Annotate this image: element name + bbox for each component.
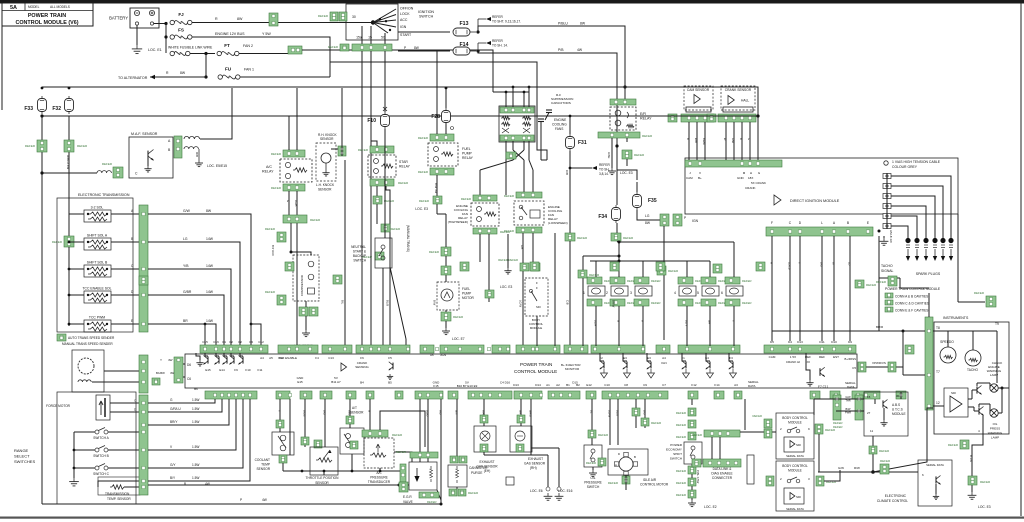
fusible link xyxy=(170,51,174,55)
pcm right wires xyxy=(806,353,810,380)
svg-text:TRANSMISSION: TRANSMISSION xyxy=(105,492,130,496)
svg-text:RELAY: RELAY xyxy=(462,156,474,160)
f31 conn bottom xyxy=(565,233,575,241)
knock wire xyxy=(341,143,343,146)
transmission connector bar xyxy=(139,205,148,332)
svg-text:V/B: V/B xyxy=(439,410,443,415)
iac box xyxy=(608,449,648,475)
maf A wire xyxy=(200,88,232,139)
pcm bottom bar pins xyxy=(214,393,217,396)
svg-text:F15: F15 xyxy=(433,384,439,388)
fuse FT xyxy=(217,51,221,55)
maf out coil B xyxy=(184,147,198,149)
svg-text:B: B xyxy=(131,237,133,241)
svg-text:LOC. E2: LOC. E2 xyxy=(704,505,717,509)
contact node 15a xyxy=(379,18,381,20)
fan cross wires xyxy=(513,150,524,160)
start to f14 wire xyxy=(398,50,450,52)
pcm bottom connector bar seg19 xyxy=(830,391,840,399)
ecf high down2 xyxy=(488,234,490,302)
svg-text:POWER: POWER xyxy=(670,443,682,447)
svg-text:B: B xyxy=(184,482,186,486)
pcm mid gnd x729 xyxy=(730,369,737,378)
svg-text:SWITCH: SWITCH xyxy=(353,259,366,263)
tacho riser xyxy=(972,331,974,350)
title block divider vertical xyxy=(24,3,26,11)
svg-text:REFER: REFER xyxy=(676,469,687,473)
injector 1 conn bottom xyxy=(587,299,602,306)
svg-text:F14: F14 xyxy=(714,383,720,387)
f35 feed xyxy=(617,170,637,180)
svg-text:RANGE: RANGE xyxy=(14,448,29,453)
pcm right transistor xyxy=(819,368,821,376)
at bottom xyxy=(351,454,353,471)
svg-text:8W: 8W xyxy=(580,22,586,26)
FT FU junction wire xyxy=(205,54,207,78)
svg-text:E3: E3 xyxy=(623,356,627,360)
coolant temp circles xyxy=(280,435,286,441)
svg-text:START &: START & xyxy=(353,250,367,254)
connector on FJ wire xyxy=(269,13,278,26)
svg-text:REFER: REFER xyxy=(396,450,407,454)
svg-text:SELECT: SELECT xyxy=(14,454,30,459)
mid connector 3 xyxy=(460,262,469,271)
brr wire xyxy=(772,330,925,332)
svg-text:SENSOR: SENSOR xyxy=(320,137,334,141)
crank sensor wires xyxy=(725,122,727,131)
svg-text:CONTROL MOTOR: CONTROL MOTOR xyxy=(640,483,669,487)
svg-text:C2: C2 xyxy=(238,340,242,344)
svg-text:SDI: SDI xyxy=(536,305,541,309)
svg-text:B+: B+ xyxy=(698,176,702,180)
ac compressor conn left xyxy=(277,232,286,242)
svg-text:OIL: OIL xyxy=(993,422,998,426)
pes down wire xyxy=(691,464,693,500)
svg-text:TO SH.: TO SH. xyxy=(599,168,610,172)
f31 refer arrow xyxy=(592,166,597,170)
knock vertical down xyxy=(344,160,346,345)
svg-text:B: B xyxy=(634,455,636,459)
FU junction node xyxy=(204,75,207,78)
ac compressor conn left2 xyxy=(277,295,286,305)
pcm drop x521 xyxy=(520,399,522,426)
bcm mid switch xyxy=(531,291,537,301)
svg-text:REFER: REFER xyxy=(25,144,36,148)
neutral sw down xyxy=(382,268,384,346)
ht cable 4 xyxy=(891,206,926,238)
egs grounds xyxy=(547,493,549,496)
svg-text:LOC. E3: LOC. E3 xyxy=(500,285,512,289)
svg-text:A/C ENABLE: A/C ENABLE xyxy=(279,356,297,360)
dim bar right node xyxy=(878,230,881,233)
injector 3 wire down xyxy=(642,306,644,346)
fuel relay up2 xyxy=(445,112,447,134)
ht cable 5 xyxy=(891,216,917,238)
pcm transistor Q4 wire xyxy=(231,353,234,356)
ht vertical link xyxy=(886,173,888,229)
to alternator wire xyxy=(150,76,206,78)
svg-text:REFER: REFER xyxy=(880,459,891,463)
pcm bottom connector bar seg9 xyxy=(448,391,458,399)
svg-text:IDLE AIR: IDLE AIR xyxy=(643,478,657,482)
svg-text:PRESSURE: PRESSURE xyxy=(584,481,602,485)
injector 4 wire up xyxy=(686,261,688,277)
ecf high relay box xyxy=(471,203,499,226)
svg-text:LG: LG xyxy=(645,214,650,218)
at sensor box xyxy=(340,428,364,454)
svg-text:SDI: SDI xyxy=(951,391,956,395)
f32 top tap xyxy=(68,87,71,90)
pcm top connector bar seg9 xyxy=(564,345,588,353)
svg-text:2: 2 xyxy=(606,291,608,295)
svg-text:REFER: REFER xyxy=(608,481,619,485)
svg-text:REFER: REFER xyxy=(974,291,985,295)
svg-text:1 5X: 1 5X xyxy=(790,355,796,359)
svg-text:SWITCH: SWITCH xyxy=(419,15,434,19)
f10 down xyxy=(384,129,386,238)
fan feed verticals xyxy=(505,92,507,107)
maf connector right xyxy=(174,136,182,158)
speedo needle xyxy=(944,355,953,358)
svg-text:C15: C15 xyxy=(202,340,208,344)
dim wire down x834 xyxy=(833,236,835,341)
svg-text:B/O: B/O xyxy=(323,410,327,416)
fan cap wire down xyxy=(540,128,542,160)
sw 15 down xyxy=(370,26,372,44)
svg-text:F9: F9 xyxy=(234,368,238,372)
svg-text:SENSING: SENSING xyxy=(355,365,369,369)
dl up wire xyxy=(744,399,746,430)
pcm transistor Q1 xyxy=(207,356,209,363)
bcm mid conns xyxy=(520,263,529,271)
injector 6 box xyxy=(726,286,743,296)
svg-text:B/LBW: B/LBW xyxy=(156,371,165,375)
svg-text:E: E xyxy=(131,319,133,323)
ignition contact start xyxy=(373,23,388,34)
injector 3 wire up xyxy=(642,261,644,277)
tps innards xyxy=(316,458,332,462)
fan out drops xyxy=(505,160,507,195)
svg-text:REFER: REFER xyxy=(742,279,751,283)
svg-text:A5: A5 xyxy=(269,356,273,360)
svg-text:B/W 4W: B/W 4W xyxy=(434,183,438,194)
svg-text:L/B: L/B xyxy=(520,245,524,249)
ecc inner xyxy=(935,484,937,494)
svg-text:B1: B1 xyxy=(566,383,570,387)
solenoid TCC ENABLE SOL pins xyxy=(87,294,89,296)
mid connector 7 xyxy=(713,264,722,273)
svg-text:B5: B5 xyxy=(388,381,392,385)
pes box xyxy=(684,442,702,464)
svg-text:DIRECT IGNITION MODULE: DIRECT IGNITION MODULE xyxy=(790,199,840,203)
FS node xyxy=(164,35,167,38)
ac press innards xyxy=(370,453,386,457)
ht cable 1 xyxy=(891,176,951,238)
speed sender refer2 xyxy=(152,378,160,385)
coolant temp box xyxy=(272,432,294,455)
range wire BR/Y xyxy=(148,399,229,425)
pcm mid transistor x729 xyxy=(732,362,734,369)
brr node xyxy=(902,330,905,333)
egs ground circles2 xyxy=(546,487,550,491)
svg-text:P/B: P/B xyxy=(558,48,564,52)
transmission connector refer xyxy=(139,276,148,285)
pcm drop x531 xyxy=(530,399,532,455)
crank sensor connector white xyxy=(723,107,753,112)
svg-text:POWER TRAIN: POWER TRAIN xyxy=(28,13,66,19)
svg-text:R/BLU 4W: R/BLU 4W xyxy=(66,155,70,169)
svg-text:4W: 4W xyxy=(168,358,173,362)
svg-text:LOC. E3: LOC. E3 xyxy=(415,207,428,211)
pcm top connector bar seg13 xyxy=(764,345,856,353)
speed sender wire1 xyxy=(92,381,140,383)
svg-text:F4: F4 xyxy=(315,356,319,360)
ht terminal stack xyxy=(883,174,891,179)
dim wire down x772 xyxy=(771,236,773,341)
pcm top bar pins xyxy=(204,347,207,350)
fusible link out wire xyxy=(190,53,215,55)
abs node xyxy=(871,470,875,474)
svg-text:30: 30 xyxy=(352,15,356,19)
svg-text:COMPRESSOR: COMPRESSOR xyxy=(300,275,304,296)
fuel pump wire down xyxy=(437,213,446,215)
knock sensor circle xyxy=(321,153,331,163)
svg-text:14W: 14W xyxy=(206,264,214,268)
egr conn xyxy=(410,452,438,458)
svg-text:ELECTRONIC: ELECTRONIC xyxy=(885,494,907,498)
ignition contact ign xyxy=(373,23,396,28)
svg-text:REFER: REFER xyxy=(419,199,430,203)
pcm bottom connector bar seg2 xyxy=(276,391,290,399)
spark plug arrows xyxy=(949,244,953,246)
svg-text:G: G xyxy=(286,200,290,202)
svg-text:Y: Y xyxy=(278,410,282,412)
svg-text:CONNECTER: CONNECTER xyxy=(712,476,733,480)
svg-text:14W: 14W xyxy=(206,319,214,323)
pb f34 node xyxy=(615,144,618,147)
svg-text:C3: C3 xyxy=(249,340,253,344)
svg-text:EXHAUST: EXHAUST xyxy=(479,460,494,464)
svg-text:R/B: R/B xyxy=(195,152,199,157)
bcm2 conn left xyxy=(766,476,774,486)
egs rh conn xyxy=(517,415,525,423)
SWITCH A left wire xyxy=(74,431,95,433)
svg-text:LOC. E16: LOC. E16 xyxy=(558,489,573,493)
svg-text:F3: F3 xyxy=(729,356,733,360)
ac compressor gnd wire xyxy=(305,301,307,307)
pcm drop x901 xyxy=(900,392,902,399)
er out conn xyxy=(622,150,632,159)
pcm mid gnd x682 xyxy=(683,369,690,378)
svg-text:Y 5W: Y 5W xyxy=(262,32,271,36)
svg-text:11: 11 xyxy=(870,429,873,433)
contact node 15 xyxy=(385,20,387,22)
star relay down1 xyxy=(376,186,378,224)
instrument green bar v xyxy=(925,317,933,410)
svg-text:& T.C.S: & T.C.S xyxy=(892,408,903,412)
pcm drop x875 xyxy=(874,399,876,404)
f33 wire down xyxy=(41,116,43,504)
fan block down wires xyxy=(505,141,507,160)
wire 15 down xyxy=(371,51,377,146)
svg-text:B/W: B/W xyxy=(433,300,437,306)
fan gnd wire xyxy=(507,234,509,268)
pcm transistor Q4 xyxy=(233,356,235,363)
bottom long wire xyxy=(148,480,190,482)
ecc conn xyxy=(880,464,889,474)
pcm conn refer3 xyxy=(885,307,893,312)
injector 2 wire down xyxy=(618,306,620,346)
pcm top connector bar seg1 xyxy=(200,345,268,353)
pcm drop x280 xyxy=(279,399,281,432)
SWITCH A symbol xyxy=(95,430,99,434)
svg-text:LOC. E3: LOC. E3 xyxy=(978,505,991,509)
svg-text:12: 12 xyxy=(936,401,940,405)
svg-text:A/T: A/T xyxy=(352,406,357,410)
ecf high conn mid xyxy=(485,290,494,298)
svg-text:B/W: B/W xyxy=(846,407,851,411)
svg-text:E15: E15 xyxy=(205,368,211,372)
svg-text:F35: F35 xyxy=(648,198,657,204)
svg-text:NEUTRAL: NEUTRAL xyxy=(351,245,366,249)
injector 2 conn top xyxy=(610,277,625,284)
svg-text:(LOWSPEED): (LOWSPEED) xyxy=(548,221,568,225)
egs rh diag wire xyxy=(531,447,559,449)
trans temp resistor xyxy=(110,485,124,489)
svg-text:F11: F11 xyxy=(258,368,263,372)
dl right link xyxy=(740,431,776,433)
svg-text:8W: 8W xyxy=(414,46,419,50)
svg-text:REFER: REFER xyxy=(676,423,687,427)
star conn mid xyxy=(373,196,382,204)
t8 inner wire xyxy=(933,330,997,332)
ignition contact lock xyxy=(373,15,396,23)
abs conn col2 xyxy=(855,395,863,420)
speed sender connector xyxy=(139,355,148,393)
dl narrow box xyxy=(747,455,754,484)
pcm drop x610 xyxy=(609,399,611,445)
mid connector 6 xyxy=(656,262,665,271)
pcm bottom connector bar seg10 xyxy=(468,391,512,399)
acp bottom xyxy=(379,468,381,471)
er relay contact xyxy=(627,112,629,118)
svg-text:VPWR/VS: VPWR/VS xyxy=(872,361,886,365)
range connector bar xyxy=(139,395,148,495)
svg-text:LOC. E7: LOC. E7 xyxy=(452,337,465,341)
svg-text:STAR: STAR xyxy=(399,160,408,164)
ecc ground inner xyxy=(935,494,937,496)
ac compressor box xyxy=(293,255,319,301)
pcm top connector bar seg4 xyxy=(356,345,410,353)
cam sensor connector white xyxy=(686,107,711,112)
svg-text:REFER: REFER xyxy=(418,136,429,140)
cannister conn xyxy=(450,456,458,463)
injector 4 conn top xyxy=(678,277,693,284)
page bottom border xyxy=(0,517,1024,519)
solenoid SHIFT SOL A coil xyxy=(88,240,107,244)
svg-text:B/Y: B/Y xyxy=(170,476,176,480)
svg-text:B/LG: B/LG xyxy=(303,410,307,416)
solenoid SHIFT SOL A left wire xyxy=(69,241,84,243)
tcc pwm branch xyxy=(204,324,206,346)
maf inner wire xyxy=(147,159,149,166)
svg-text:P: P xyxy=(684,216,686,220)
instr ground xyxy=(971,492,973,495)
injector feed seg1 xyxy=(619,241,734,243)
star relay conn bottom xyxy=(370,179,394,186)
svg-text:TEMP: TEMP xyxy=(261,463,270,467)
oil press gnd wire xyxy=(592,467,594,470)
fuse F35 xyxy=(636,192,638,195)
svg-text:D13: D13 xyxy=(513,383,519,387)
pcm transistor Q2 wire xyxy=(216,353,219,356)
svg-text:WHITE FUSIBLE LINK WIRE: WHITE FUSIBLE LINK WIRE xyxy=(168,46,213,50)
svg-text:SWITCH C: SWITCH C xyxy=(93,472,109,476)
injector 3 conn top xyxy=(634,277,649,284)
oil press innards xyxy=(591,449,595,453)
svg-text:LOC. E3: LOC. E3 xyxy=(620,171,633,175)
svg-text:TCC ENABLE SOL: TCC ENABLE SOL xyxy=(82,287,111,291)
svg-text:SERIAL DATA: SERIAL DATA xyxy=(926,463,944,467)
at conn bottom xyxy=(350,441,358,449)
ac relay conn bottom xyxy=(283,184,305,191)
svg-text:REFER: REFER xyxy=(589,273,600,277)
svg-text:FORCE MOTOR: FORCE MOTOR xyxy=(46,404,71,408)
svg-text:GND: GND xyxy=(737,176,745,180)
injector 5 box xyxy=(702,286,719,296)
FT fan wire xyxy=(239,53,290,55)
svg-text:V: V xyxy=(699,171,701,175)
f28 down xyxy=(445,125,447,134)
SWITCH B symbol xyxy=(95,448,99,452)
maf wire from bus xyxy=(42,172,97,174)
fan gnd mid xyxy=(507,268,509,271)
svg-text:P/BLU: P/BLU xyxy=(558,22,568,26)
instr transistor bottom xyxy=(978,407,980,414)
f35 conn a xyxy=(660,214,669,226)
pcm top connector bar seg10 xyxy=(591,345,645,353)
page left border xyxy=(1,3,3,110)
pcm top connector bar seg5 xyxy=(420,345,434,353)
svg-text:D13: D13 xyxy=(797,340,803,344)
solenoid TCC PWM coil xyxy=(88,322,107,326)
connector on FT wire xyxy=(288,46,302,54)
crank sensor symbol xyxy=(728,96,734,105)
pcm bottom connector bar seg4 xyxy=(320,391,332,399)
pcm mid gnd x647 xyxy=(648,369,655,378)
svg-text:REFER: REFER xyxy=(271,186,282,190)
fuse F14 xyxy=(453,47,470,55)
svg-text:FANS: FANS xyxy=(555,127,563,131)
abs diagonal up xyxy=(873,408,933,472)
svg-text:HALL: HALL xyxy=(741,99,749,103)
svg-text:B/Y AUX: B/Y AUX xyxy=(271,245,275,256)
svg-text:(EH): (EH) xyxy=(484,469,491,473)
maf ground xyxy=(198,160,200,163)
sol wire tccen xyxy=(148,295,224,346)
svg-text:G/Y: G/Y xyxy=(170,463,176,467)
svg-text:1.5W: 1.5W xyxy=(192,445,199,449)
fan relay A innards xyxy=(501,116,510,120)
svg-text:SHIFT: SHIFT xyxy=(673,452,682,456)
fpm ground xyxy=(445,328,447,331)
bcm2 box xyxy=(776,461,814,511)
f35 up xyxy=(636,182,638,192)
trans temp wire left xyxy=(98,481,140,487)
pcm drop x325 xyxy=(324,399,326,447)
fuse FU xyxy=(218,75,222,79)
oil press ground xyxy=(592,470,594,473)
